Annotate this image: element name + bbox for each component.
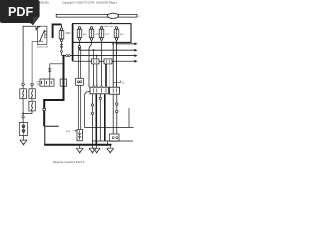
svg-text:Page 1: Page 1 — [109, 0, 118, 4]
fuse F4 — [114, 27, 125, 41]
solenoid valve V2 — [29, 86, 35, 99]
junction dot node A — [63, 55, 65, 57]
wires JB2 pins down to connector C2 — [113, 94, 117, 136]
ground G5 with link wire — [107, 141, 110, 145]
wire W1 from ignition switch terminal to left column — [23, 26, 36, 83]
fuse F1 EFI — [77, 27, 87, 41]
stub wire S3 to right edge with arrow — [73, 60, 135, 62]
connector circle above C1 — [22, 116, 24, 118]
svg-text:2005-05): 2005-05) — [38, 0, 49, 4]
inline connector C6 — [92, 59, 100, 64]
connector circle on wire W2 — [31, 83, 33, 85]
wire from S0 junction into JB2 — [112, 44, 114, 87]
svg-text:Ignition SW: Ignition SW — [37, 46, 49, 49]
shield wire (dashed) from C7 — [109, 64, 111, 87]
connector circles on JB1 pin 1 wire — [91, 104, 93, 106]
wire fuse F2 drop to JB1 — [89, 41, 92, 88]
wires from C6 into junction block JB1 — [94, 64, 97, 87]
wire pair from fuse F1 down to relay box — [78, 48, 80, 130]
inline connector C7 — [104, 59, 112, 64]
wire fuse F4 drop to JB2 — [116, 41, 118, 88]
junction dot node N1 — [22, 113, 24, 115]
junction block JB2 — [110, 87, 120, 94]
ground G2 below NF1 — [79, 144, 81, 147]
wire from V1 and V3 down to connector C1 — [23, 99, 32, 116]
ignition switch SW1 — [37, 26, 47, 44]
noise filter component NF1 inside relay box — [77, 129, 82, 140]
fuse F3 — [99, 27, 110, 41]
inline connector circles on S2 — [66, 55, 68, 57]
svg-text:4/19/2005: 4/19/2005 — [96, 0, 108, 4]
circuit breaker CB1 hook — [36, 26, 40, 30]
connector chevrons on branch wire — [48, 68, 51, 72]
svg-text:Engine Control Part 4: Engine Control Part 4 — [53, 160, 84, 164]
wire branch to connector C4 — [50, 64, 64, 80]
connector circle below fuse F1 — [78, 46, 80, 48]
junction dot node B — [63, 63, 65, 65]
svg-text:W-B: W-B — [66, 131, 71, 133]
svg-text:1J: 1J — [122, 81, 125, 84]
wire (bold) ignition switch to fuse AM2 — [53, 24, 62, 38]
svg-text:1J: 1J — [138, 16, 140, 18]
wire JB1 pin 3 down — [99, 94, 101, 141]
wire JB1 pin 1 down to ground G3 — [92, 94, 94, 146]
wire (bold) from C7 into JB1 — [105, 64, 107, 87]
svg-text:ETC: ETC — [105, 34, 110, 36]
relay box RB outline — [45, 126, 59, 144]
wires from S1/S2 into connector C6 with junction dots — [94, 50, 97, 59]
wire (bold) JB1 pin 4 down — [104, 94, 106, 141]
svg-text:EFI: EFI — [83, 34, 87, 36]
connector block C1 — [19, 123, 27, 136]
fusible link block (engine room R/B) — [73, 24, 131, 43]
PDF file badge overlay — [0, 0, 40, 25]
solenoid valve V3 — [29, 99, 35, 111]
wire elbow from pair to ECM rail — [84, 91, 133, 127]
solenoid valve V1 — [20, 86, 27, 99]
connector block C4 — [40, 79, 54, 86]
ground G4 — [93, 145, 100, 153]
stub wire S1 to right edge with arrow — [80, 48, 135, 51]
svg-text:Copyright © 2005 TOYOTA: Copyright © 2005 TOYOTA — [62, 0, 95, 4]
connector block C2 — [109, 134, 119, 141]
wire fuse F3 drop to JB1 — [101, 41, 103, 88]
relay box RB bottom rail (bold) — [44, 144, 111, 146]
ECM lower rail wire — [92, 140, 133, 142]
junction dot on F4 drop — [116, 43, 118, 45]
svg-text:PDF: PDF — [8, 5, 33, 19]
wire W2 from ignition switch to solenoid V2 — [32, 41, 43, 83]
connector circles on JB2 wire — [116, 103, 118, 105]
wire into C1 — [22, 118, 24, 123]
power bus bar B+ with connector oval 1J — [56, 13, 140, 24]
inline connector C5 on main feed — [60, 79, 66, 86]
stub wire S2 from AM2 to right edge with arrow — [62, 55, 135, 57]
fuse AM2 — [59, 25, 71, 55]
fuse F2 — [89, 27, 99, 41]
wire (bold) fusible link block left edge drop — [72, 24, 74, 62]
connector circle on JB1 pin 3 wire — [99, 97, 101, 99]
svg-text:ALT: ALT — [120, 33, 125, 36]
wire (bold) JB1 pin 2 down to ground G4 — [95, 94, 97, 146]
ground G3 — [89, 145, 96, 153]
connector circle on wire W1 — [22, 83, 24, 85]
svg-text:AM2: AM2 — [66, 32, 72, 35]
junction block JB1 — [90, 87, 109, 94]
wire (bold) main feed to relay box — [44, 56, 63, 127]
wire branch to node 1J label — [113, 81, 120, 83]
ground G1 — [23, 135, 25, 137]
stub wire S0 to right edge with arrow — [117, 43, 135, 45]
inline connector C3 on wire pair — [76, 78, 84, 85]
value labels beside V1/V2 — [37, 82, 43, 85]
